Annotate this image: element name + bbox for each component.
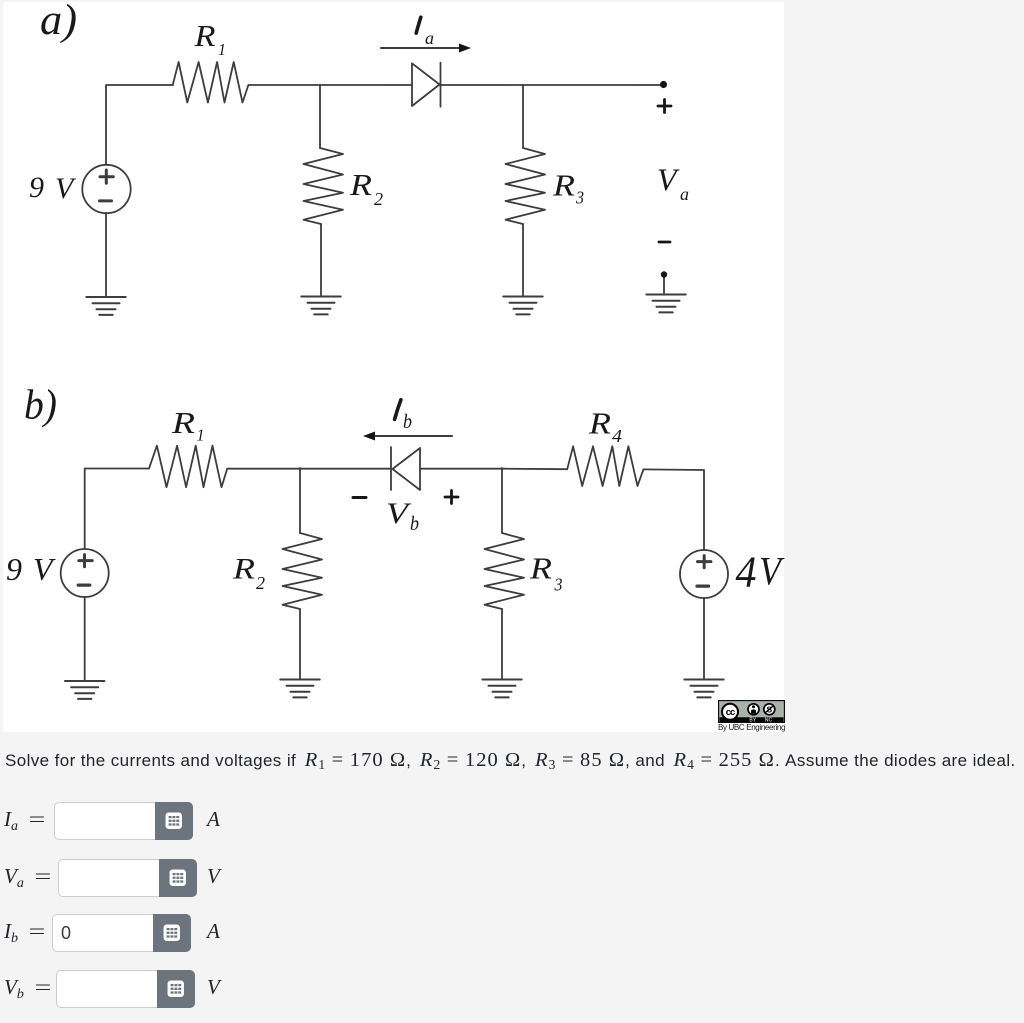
svg-text:cc: cc (726, 707, 735, 718)
svg-text:3: 3 (575, 188, 584, 208)
svg-text:R: R (552, 167, 575, 202)
svg-text:R: R (193, 18, 215, 53)
svg-text:V: V (55, 172, 77, 205)
svg-text:V: V (33, 551, 56, 587)
svg-text:a: a (680, 184, 689, 204)
svg-text:a: a (425, 28, 434, 48)
svg-text:R: R (529, 551, 552, 586)
svg-text:9: 9 (6, 551, 22, 587)
svg-text:2: 2 (256, 573, 265, 593)
svg-text:a): a) (40, 0, 77, 44)
svg-text:R: R (232, 553, 255, 586)
svg-text:9: 9 (29, 171, 44, 204)
svg-text:4: 4 (612, 426, 622, 446)
svg-text:V: V (759, 549, 785, 594)
svg-text:b: b (410, 513, 419, 535)
svg-text:1: 1 (197, 426, 205, 445)
svg-text:3: 3 (554, 575, 563, 595)
svg-text:b: b (403, 411, 412, 433)
svg-text:V: V (386, 497, 412, 530)
svg-text:R: R (171, 405, 195, 440)
svg-text:4: 4 (736, 548, 757, 597)
svg-text:V: V (657, 162, 680, 198)
svg-text:1: 1 (218, 40, 226, 59)
svg-text:R: R (349, 167, 372, 202)
svg-text:R: R (588, 406, 611, 441)
svg-text:b): b) (24, 383, 57, 429)
svg-text:2: 2 (374, 189, 383, 209)
